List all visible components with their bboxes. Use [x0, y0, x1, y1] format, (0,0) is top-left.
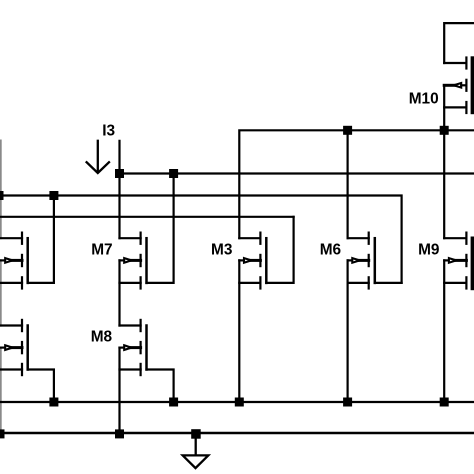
svg-text:M3: M3 — [211, 242, 232, 259]
wire: M8 source down to ground rail — [118, 348, 120, 433]
transistor M6 — [348, 233, 402, 289]
wire: M6 drain up to top rail — [347, 130, 349, 238]
transistor M8 — [120, 320, 174, 402]
svg-text:M6: M6 — [320, 242, 341, 259]
transistor M3 — [239, 217, 293, 289]
wire: M7 source to M8 drain — [118, 260, 120, 325]
wire D: top rail from M3 drain to right edge — [239, 130, 474, 238]
wire: left column line (middle segment bulk/source to M-lower drain) — [0, 260, 2, 325]
transistor (left, cut off, lower row) — [0, 320, 54, 402]
junction: wire D / M6 drain — [343, 126, 352, 135]
transistor M10 (PMOS, cut at right edge) — [444, 23, 474, 113]
junction: rail G / left column — [0, 429, 5, 438]
junction: rail F / M6 source — [343, 398, 352, 407]
wire B: second rail to M6 gate — [0, 196, 402, 283]
junction: rail F / M8 gate — [169, 398, 178, 407]
wire: left column line (lower segment to ground rail) — [0, 348, 2, 433]
current source I3 arrow — [87, 141, 109, 173]
junction: wire D / M10-M9 column — [440, 126, 449, 135]
transistor (left, cut off, upper row) — [0, 196, 54, 289]
wire: M9 source down to rail — [443, 260, 445, 402]
wire: I3 drop / M7 drain line — [118, 141, 120, 238]
junction: rail G / ground — [191, 429, 201, 439]
junction: rail F / M9 source — [440, 398, 449, 407]
svg-text:M8: M8 — [91, 328, 113, 345]
transistor M9 (cut at right edge) — [444, 233, 472, 289]
svg-text:M9: M9 — [418, 242, 439, 259]
ground symbol — [183, 433, 209, 468]
junction: rail G / M8 source — [115, 429, 124, 438]
junction: wire B / left gate — [49, 191, 58, 200]
junction: rail F / left lower gate — [49, 398, 58, 407]
transistor M7 — [120, 174, 174, 289]
junction: rail F / M3 source — [235, 398, 244, 407]
wire: M6 source down to rail — [347, 260, 349, 402]
wire: left column drain line (cut at left edge, upper segment) — [0, 141, 2, 239]
svg-text:M7: M7 — [91, 242, 112, 259]
wire: M3 source down to rail — [238, 260, 240, 402]
junction: wire A / M7 gate — [169, 169, 178, 178]
junction: wire A / I3 node — [115, 169, 124, 178]
svg-text:I3: I3 — [102, 122, 115, 139]
wire A: diode node rail — [120, 172, 474, 174]
junction: wire B / left column (cut) — [0, 191, 4, 200]
svg-text:M10: M10 — [409, 91, 439, 108]
wire F: lower gate/source rail — [0, 401, 474, 403]
wire: M9/M10 column line (M10 source to wire D to M9 drain) — [443, 85, 445, 238]
wire G: ground rail — [0, 432, 474, 435]
wire C: third rail to M3 gate — [0, 216, 294, 218]
